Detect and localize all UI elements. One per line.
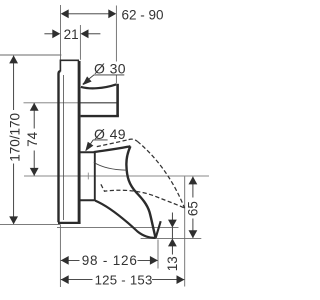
dimension 21 left tail xyxy=(44,33,53,35)
dimension 65 top arrow xyxy=(189,176,198,184)
svg-text:98 - 126: 98 - 126 xyxy=(82,253,138,268)
extension line 170/170 top xyxy=(0,54,61,56)
handle tip front face xyxy=(156,221,161,238)
extension line 62-90 right xyxy=(115,6,117,84)
plate inner edge xyxy=(62,75,64,220)
handle seam thin curve xyxy=(94,162,127,170)
extension line B handle tip bottom xyxy=(141,237,202,239)
dimension 74 line xyxy=(33,103,35,176)
dimension 125-153 line xyxy=(61,279,185,281)
pivot center tick xyxy=(87,173,89,180)
dimension 21 left arrow xyxy=(52,29,60,38)
extension line 170/170 bottom xyxy=(0,224,60,226)
dimension 98-126 right arrow xyxy=(150,256,158,265)
svg-text:21: 21 xyxy=(64,27,79,42)
svg-text:170/170: 170/170 xyxy=(7,113,22,162)
dimension 98-126 left arrow xyxy=(61,256,69,265)
dimension 21 right tail xyxy=(88,33,100,35)
dimension 170/170 top arrow xyxy=(9,55,18,63)
dimension 21 right arrow xyxy=(81,29,89,38)
extension line 21 right xyxy=(79,25,81,60)
dimension 13 upper arrow xyxy=(168,220,177,228)
plate bottom edge xyxy=(58,222,81,224)
extension line 98-126 right vertical xyxy=(157,240,159,269)
knob top curve xyxy=(81,84,116,88)
dashed raised-handle corner xyxy=(129,139,138,141)
svg-text:Ø 49: Ø 49 xyxy=(94,126,126,142)
dimension 62-90 right arrow xyxy=(108,9,116,18)
dashed raised-handle front edge xyxy=(137,141,184,208)
dimension 74 bottom arrow xyxy=(30,168,39,176)
dimension 62-90 line xyxy=(64,13,113,15)
sleeve bottom edge xyxy=(79,199,95,201)
svg-text:Ø 30: Ø 30 xyxy=(94,61,126,77)
svg-text:125 - 153: 125 - 153 xyxy=(95,273,153,288)
centerline pivot axis xyxy=(24,175,209,177)
extension line left vertical (62-90 and 21) xyxy=(60,5,62,60)
knob bottom edge xyxy=(81,115,119,117)
svg-text:13: 13 xyxy=(165,256,180,271)
extension line 125-153 right vertical xyxy=(184,177,186,287)
mixer body vertical band xyxy=(78,61,81,223)
dimension 13 lower arrow xyxy=(168,238,177,246)
dimension 125-153 right arrow xyxy=(177,275,185,284)
dashed raised-handle top edge xyxy=(97,140,129,147)
extension line 74 top / knob seam xyxy=(24,102,81,104)
handle top edge xyxy=(94,146,131,152)
dimension 65 bottom arrow xyxy=(189,230,198,238)
sleeve top edge xyxy=(79,151,95,153)
plate outer edge xyxy=(59,71,61,222)
dimension 98-126 line xyxy=(61,259,158,261)
dimension 74 top arrow xyxy=(30,103,39,111)
dimension 170/170 line xyxy=(13,56,15,224)
svg-text:74: 74 xyxy=(25,131,40,147)
handle underside xyxy=(95,201,156,238)
handle front edge xyxy=(126,146,155,237)
knob right edge xyxy=(116,84,119,116)
dimension 13 upper tail xyxy=(171,213,173,255)
svg-text:65: 65 xyxy=(185,201,200,216)
escutcheon plate top block xyxy=(60,60,79,71)
dimension 170/170 bottom arrow xyxy=(9,216,18,224)
sleeve right edge xyxy=(94,152,96,200)
leader Ø30 arrowhead xyxy=(82,76,91,85)
dashed raised-handle underside xyxy=(101,184,185,208)
leader Ø49 landing line xyxy=(86,140,108,151)
dimension 62-90 left arrow xyxy=(61,9,69,18)
extension line bottom-left vertical xyxy=(59,225,61,287)
leader Ø30 landing line xyxy=(83,75,125,84)
svg-text:62 - 90: 62 - 90 xyxy=(122,7,164,22)
extension line A handle tip top xyxy=(57,227,179,229)
dimension 65 line xyxy=(192,177,194,238)
dimension 125-153 left arrow xyxy=(61,275,69,284)
leader Ø49 arrowhead xyxy=(85,142,93,152)
knob seam line xyxy=(80,102,117,104)
